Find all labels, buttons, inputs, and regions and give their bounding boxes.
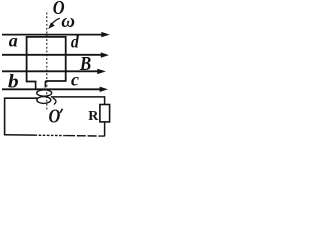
wire left from ring xyxy=(5,98,38,135)
wire bottom solid part xyxy=(4,134,35,136)
coil left side a-b xyxy=(26,36,28,82)
brush arc xyxy=(53,98,56,105)
resistor R xyxy=(100,105,110,122)
svg-text:B: B xyxy=(79,53,91,76)
svg-text:a: a xyxy=(9,31,18,51)
wire from ring to resistor top xyxy=(51,97,105,105)
field line B1 xyxy=(2,32,110,37)
coil right side d-c xyxy=(65,36,67,81)
svg-text:R: R xyxy=(88,109,99,124)
coil bottom side left part xyxy=(26,81,37,83)
axis O-O' dashed line xyxy=(46,13,48,111)
coil bottom side right part xyxy=(45,80,66,82)
rotation arrow omega xyxy=(48,18,60,29)
coil lead left xyxy=(35,82,37,90)
wire resistor bottom xyxy=(104,122,106,136)
field line B3 xyxy=(2,69,106,74)
coil top side a-d xyxy=(27,36,66,38)
slip ring 2 xyxy=(37,97,51,104)
svg-text:c: c xyxy=(71,70,79,90)
svg-text:b: b xyxy=(8,72,19,93)
svg-text:O: O xyxy=(48,105,60,128)
field line B4 xyxy=(2,87,108,92)
wire bottom right part xyxy=(66,135,105,138)
coil lead right xyxy=(44,81,46,88)
wire bottom dashed part xyxy=(35,134,67,136)
svg-text:ω: ω xyxy=(61,11,75,32)
label O prime tick xyxy=(60,109,62,113)
field line B2 xyxy=(2,52,109,57)
slip ring 1 xyxy=(37,90,52,96)
svg-text:d: d xyxy=(71,31,79,51)
